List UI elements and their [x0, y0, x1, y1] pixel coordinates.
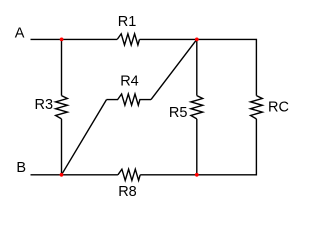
resistor R3	[56, 96, 68, 119]
junction dot: R4 / R5 (top middle)	[195, 38, 199, 42]
resistor R4 (with horizontal leads)	[107, 94, 152, 105]
svg-text:R8: R8	[118, 184, 137, 200]
svg-text:A: A	[15, 25, 25, 41]
junction dot: node A / R3 (top left)	[60, 38, 64, 42]
wire: top junction down to R3	[61, 39, 63, 95]
resistor R8	[118, 169, 140, 180]
wire: B junction to R4 (lower diagonal)	[62, 100, 107, 175]
svg-text:R3: R3	[35, 97, 54, 113]
junction dot: node B / R3 / R4 (bottom left)	[60, 173, 64, 177]
svg-text:R4: R4	[120, 74, 139, 90]
junction dot: R5 (bottom middle)	[195, 173, 199, 177]
svg-text:B: B	[16, 160, 26, 176]
wire: node B to R8 (bottom left)	[31, 174, 118, 176]
wire: node A to R1 (top left)	[31, 38, 118, 40]
resistor R1	[117, 34, 139, 45]
wire: top junction down to R5	[196, 39, 198, 95]
resistor RC	[251, 96, 263, 119]
svg-text:R1: R1	[118, 14, 137, 30]
resistor R5	[191, 96, 203, 119]
wire: R3 down to node B junction	[61, 119, 63, 175]
wire: R8 to bottom-right corner and up to RC	[140, 119, 256, 175]
svg-text:RC: RC	[268, 100, 289, 116]
wire: R1 to top-right corner and down to RC	[140, 39, 257, 95]
svg-text:R5: R5	[169, 105, 188, 121]
wire: R4 to top junction (upper diagonal)	[151, 39, 197, 99]
wire: R5 down to bottom junction	[196, 119, 198, 175]
